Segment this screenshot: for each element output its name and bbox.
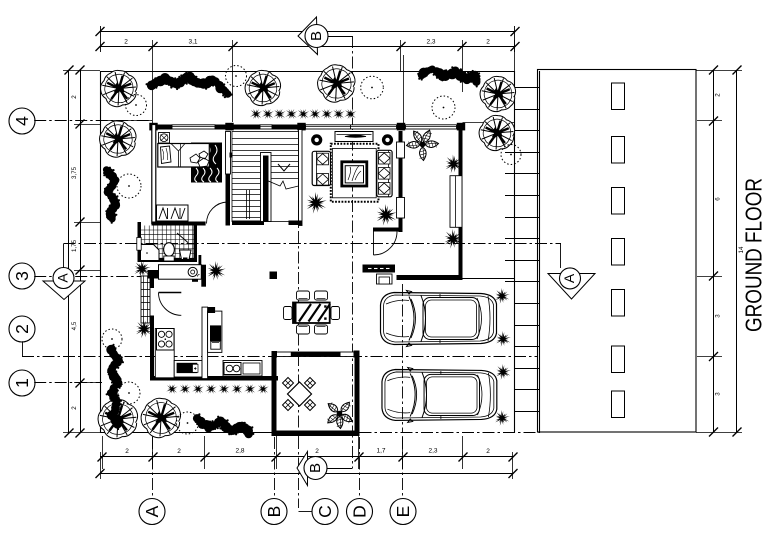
living rug — [331, 144, 379, 202]
right segmented dimension line — [713, 70, 715, 432]
right overall dimension line — [736, 70, 738, 432]
bathroom walls — [138, 222, 142, 262]
kitchen bottom counter and sink — [174, 361, 202, 378]
terrace right wall — [355, 353, 360, 437]
svg-text:C: C — [315, 505, 335, 518]
grid line 4 — [34, 120, 152, 122]
flower entry — [407, 129, 439, 161]
grid line 1 — [34, 382, 102, 384]
svg-text:2: 2 — [125, 448, 129, 455]
cooktop 2 burner — [223, 361, 262, 377]
dining table — [293, 303, 330, 324]
svg-text:3,75: 3,75 — [71, 166, 78, 179]
bed blanket scribbles — [190, 151, 209, 167]
svg-text:3: 3 — [715, 392, 722, 396]
entry right wall — [459, 125, 463, 281]
grid line 2 elbow — [22, 341, 24, 356]
svg-text:2: 2 — [124, 39, 128, 46]
svg-text:2: 2 — [71, 406, 78, 410]
grid bubble 4 — [9, 108, 35, 134]
tree top-left 1 — [101, 70, 137, 106]
entry steps — [377, 274, 393, 284]
grid line E through driveway — [402, 284, 404, 433]
column at kitchen corner — [148, 270, 159, 279]
svg-text:2: 2 — [315, 448, 319, 455]
wardrobe — [157, 205, 189, 221]
grid bubble C — [312, 499, 338, 525]
small circle shrubs — [126, 95, 147, 116]
top segmented dimension line — [100, 46, 515, 48]
bathroom window — [137, 238, 141, 251]
kitchen left wall — [150, 279, 154, 289]
garden edge line at grid 4 right — [463, 122, 515, 124]
coffee table — [342, 162, 367, 186]
kitchen door — [159, 292, 182, 294]
svg-text:2: 2 — [486, 39, 490, 46]
car bottom — [382, 368, 497, 423]
bottom segmented dimension line — [100, 456, 513, 458]
grid line C stem and elbow — [298, 437, 300, 508]
stair handrail lines — [246, 190, 248, 219]
bedroom bottom wall — [152, 222, 206, 226]
terrace top wall with window — [277, 352, 355, 357]
shrub chain top-right — [417, 66, 480, 88]
house left wall — [152, 125, 156, 224]
car top — [381, 291, 497, 347]
corridor bottom wall — [232, 221, 264, 226]
grid line A stem — [152, 437, 154, 499]
grid bubble D — [347, 499, 373, 525]
svg-text:2: 2 — [177, 448, 181, 455]
entry porch wall — [397, 275, 463, 280]
svg-text:A: A — [561, 273, 577, 283]
stair arrow — [278, 164, 290, 171]
section marker B bottom — [297, 452, 308, 486]
kitchen left counter — [155, 329, 174, 378]
driveway top edge lines — [463, 278, 515, 280]
svg-text:3: 3 — [715, 314, 722, 318]
svg-text:B: B — [264, 506, 284, 518]
svg-text:GROUND FLOOR: GROUND FLOOR — [741, 178, 767, 332]
entry window right wall — [450, 176, 462, 228]
svg-text:2,8: 2,8 — [235, 448, 244, 455]
stair centre stringer wall — [261, 153, 272, 222]
svg-text:2: 2 — [12, 324, 32, 334]
bathroom tile grid — [141, 226, 194, 259]
left overall dimension line — [68, 70, 70, 433]
bottom overall dimension line — [100, 473, 513, 475]
entry threshold mat — [363, 265, 396, 273]
grid bubble 2 — [9, 316, 35, 342]
section marker A right — [560, 244, 562, 268]
tree top-right 2 — [479, 115, 514, 150]
grid bubble A — [139, 499, 165, 525]
svg-text:E: E — [393, 506, 413, 518]
shrub chain top-left — [146, 72, 233, 99]
terrace table set — [288, 382, 312, 406]
svg-text:A: A — [142, 505, 162, 517]
svg-text:1,7: 1,7 — [376, 448, 385, 455]
property boundary left — [100, 71, 102, 433]
bedroom door — [227, 202, 229, 224]
flower terrace — [326, 400, 354, 428]
kitchen island thin wall — [202, 307, 208, 379]
street median markers — [612, 83, 625, 110]
svg-text:2,3: 2,3 — [428, 448, 437, 455]
terrace left wall — [272, 353, 277, 437]
living door — [373, 232, 375, 256]
svg-text:B: B — [307, 463, 324, 473]
grid bubble 3 — [9, 263, 35, 289]
svg-text:2,3: 2,3 — [426, 39, 435, 46]
tree bottom-left 2 — [141, 398, 180, 437]
svg-text:4,5: 4,5 — [71, 321, 78, 330]
svg-text:3,1: 3,1 — [188, 39, 197, 46]
shower door diagonal — [177, 233, 189, 243]
section line A — [64, 243, 562, 245]
svg-text:3: 3 — [12, 271, 32, 281]
palm at side entry top — [135, 260, 151, 278]
top extension lines — [152, 40, 154, 124]
bedroom-stair wall — [226, 132, 231, 175]
shrub chain left upper — [103, 166, 120, 224]
shower tray — [141, 245, 160, 261]
wardrobe knob — [230, 153, 233, 158]
walkway strip — [514, 71, 516, 433]
grid bubble E — [390, 499, 416, 525]
section line B — [352, 36, 354, 468]
kitchen bottom wall — [150, 376, 278, 381]
section marker B top — [298, 17, 318, 55]
tree top-mid 2 — [318, 65, 355, 102]
tree top-right 1 — [480, 76, 515, 111]
grass row bottom — [166, 384, 178, 394]
grid line E stem — [402, 437, 404, 499]
grid line D stem — [359, 437, 361, 499]
console table — [335, 132, 373, 142]
stairs — [232, 132, 299, 222]
bed fold — [171, 144, 179, 152]
shrub chain bottom — [193, 413, 254, 438]
svg-text:1,75: 1,75 — [71, 239, 78, 252]
dining chairs — [297, 291, 310, 300]
property boundary bottom — [100, 432, 272, 434]
svg-text:A: A — [55, 273, 71, 283]
side entry steps — [141, 276, 150, 323]
wash basin — [180, 250, 192, 260]
svg-text:4: 4 — [12, 116, 32, 126]
bed pillow — [161, 146, 172, 164]
property boundary top — [100, 71, 514, 73]
svg-text:D: D — [350, 505, 370, 518]
street block rectangle — [538, 70, 697, 433]
grass row top — [250, 109, 262, 119]
toilet — [164, 243, 175, 257]
sofa right — [377, 150, 392, 197]
living bottom wall — [373, 228, 403, 232]
section marker A left — [43, 281, 85, 300]
svg-text:2: 2 — [486, 448, 490, 455]
palm at side entry bottom — [136, 320, 153, 339]
stair right wall — [299, 130, 303, 226]
svg-text:2: 2 — [71, 95, 78, 99]
grid line B stem — [274, 437, 276, 499]
top overall dimension line — [100, 31, 515, 33]
stair break line — [266, 180, 299, 189]
palm plants — [208, 261, 226, 281]
grid bubble 1 — [9, 370, 35, 396]
living-entry wall with doors — [399, 131, 403, 143]
svg-text:1: 1 — [12, 378, 32, 388]
round side tables — [311, 134, 322, 145]
right extension lines — [696, 70, 742, 72]
svg-text:2: 2 — [715, 93, 722, 97]
bed — [158, 144, 210, 168]
laundry counter with washer — [159, 265, 202, 280]
tree top-mid 1 — [245, 70, 280, 105]
bedside table — [159, 133, 170, 144]
freestanding column — [270, 272, 278, 280]
svg-text:6: 6 — [715, 197, 722, 201]
bottom extension lines — [102, 436, 104, 469]
grid bubble B — [261, 499, 287, 525]
tree top-left 2 — [100, 121, 136, 157]
grid line 3 — [34, 276, 150, 278]
bedroom rug dark — [191, 143, 222, 183]
refrigerator — [210, 325, 221, 341]
shrub chain left lower — [106, 344, 124, 430]
left segmented dimension line — [80, 70, 82, 433]
tree bottom-left 1 — [98, 399, 137, 438]
cooktop 4 burner — [157, 329, 175, 351]
sofa left — [312, 151, 330, 185]
house top wall with windows — [149, 123, 157, 131]
left extension lines — [63, 70, 100, 72]
kitchen island counter — [208, 311, 222, 352]
grid line 2 — [22, 356, 537, 358]
svg-text:B: B — [308, 31, 325, 41]
terrace bottom wall — [272, 431, 360, 437]
